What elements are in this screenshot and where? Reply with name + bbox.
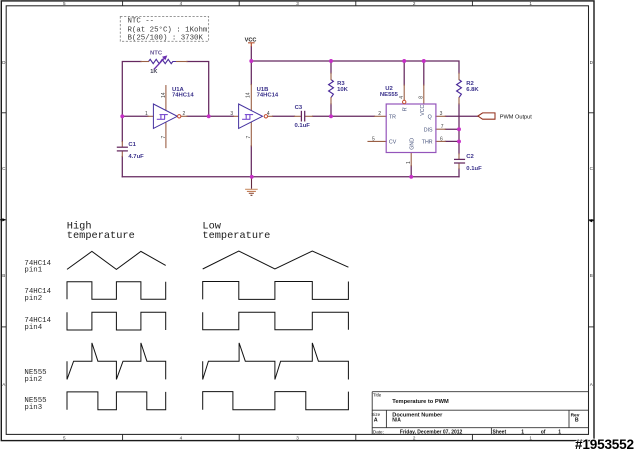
svg-text:N/A: N/A bbox=[392, 417, 401, 423]
svg-text:2: 2 bbox=[378, 111, 381, 117]
svg-text:1K: 1K bbox=[150, 69, 157, 75]
svg-text:4: 4 bbox=[399, 96, 405, 99]
svg-text:Sheet: Sheet bbox=[493, 429, 507, 435]
svg-text:3: 3 bbox=[296, 436, 299, 441]
svg-text:B(25/100) : 3730K: B(25/100) : 3730K bbox=[128, 34, 204, 42]
svg-text:PWM Output: PWM Output bbox=[500, 115, 532, 121]
svg-text:4: 4 bbox=[180, 436, 183, 441]
svg-text:C: C bbox=[590, 166, 594, 171]
svg-text:D: D bbox=[590, 60, 594, 65]
svg-text:temperature: temperature bbox=[67, 230, 135, 242]
svg-text:5: 5 bbox=[63, 436, 66, 441]
svg-text:NTC --: NTC -- bbox=[128, 18, 155, 26]
svg-text:C: C bbox=[2, 166, 6, 171]
svg-text:#1953552: #1953552 bbox=[575, 437, 635, 452]
svg-text:A: A bbox=[590, 382, 594, 387]
svg-text:C3: C3 bbox=[295, 105, 303, 111]
svg-text:1: 1 bbox=[529, 436, 532, 441]
svg-text:D: D bbox=[2, 60, 6, 65]
svg-text:3: 3 bbox=[296, 1, 299, 6]
svg-text:C1: C1 bbox=[128, 142, 136, 148]
svg-text:CV: CV bbox=[389, 139, 397, 145]
svg-text:temperature: temperature bbox=[202, 230, 270, 242]
svg-text:1: 1 bbox=[145, 111, 148, 117]
svg-text:14: 14 bbox=[246, 92, 252, 98]
svg-text:DIS: DIS bbox=[424, 127, 433, 133]
svg-text:4: 4 bbox=[267, 111, 270, 117]
svg-text:Size: Size bbox=[371, 412, 380, 417]
svg-text:Date:: Date: bbox=[373, 429, 384, 434]
svg-text:5: 5 bbox=[63, 1, 66, 6]
svg-text:pin3: pin3 bbox=[24, 404, 42, 412]
svg-text:pin2: pin2 bbox=[24, 295, 42, 303]
svg-text:2: 2 bbox=[183, 111, 186, 117]
svg-text:0.1uF: 0.1uF bbox=[466, 166, 482, 172]
svg-text:4.7uF: 4.7uF bbox=[128, 154, 144, 160]
svg-text:7: 7 bbox=[441, 124, 444, 130]
svg-text:Temperature to PWM: Temperature to PWM bbox=[392, 399, 449, 405]
svg-text:1: 1 bbox=[521, 429, 524, 435]
svg-text:14: 14 bbox=[161, 92, 167, 98]
svg-text:Friday, December 07, 2012: Friday, December 07, 2012 bbox=[400, 429, 463, 435]
svg-text:of: of bbox=[541, 429, 546, 435]
svg-text:VCC: VCC bbox=[420, 104, 426, 115]
svg-text:VCC: VCC bbox=[245, 38, 257, 44]
svg-text:3: 3 bbox=[230, 111, 233, 117]
svg-text:C2: C2 bbox=[466, 154, 474, 160]
svg-text:R: R bbox=[403, 107, 409, 111]
svg-text:5: 5 bbox=[372, 136, 375, 142]
svg-text:8: 8 bbox=[418, 96, 424, 99]
svg-text:2: 2 bbox=[413, 436, 416, 441]
svg-text:B: B bbox=[2, 273, 5, 278]
svg-text:Title: Title bbox=[373, 393, 382, 398]
svg-text:R(at 25°C) : 1Kohm: R(at 25°C) : 1Kohm bbox=[128, 25, 208, 34]
svg-text:pin4: pin4 bbox=[24, 324, 42, 332]
svg-text:1: 1 bbox=[406, 161, 412, 164]
svg-text:0.1uF: 0.1uF bbox=[295, 123, 311, 129]
svg-text:1: 1 bbox=[529, 1, 532, 6]
svg-text:pin2: pin2 bbox=[24, 376, 42, 384]
svg-text:6: 6 bbox=[440, 136, 443, 142]
svg-text:74HC14: 74HC14 bbox=[257, 93, 279, 99]
svg-text:2: 2 bbox=[413, 1, 416, 6]
svg-text:GND: GND bbox=[409, 138, 415, 150]
svg-text:7: 7 bbox=[161, 136, 167, 139]
svg-text:6.8K: 6.8K bbox=[466, 87, 479, 93]
svg-text:4: 4 bbox=[180, 1, 183, 6]
svg-text:B: B bbox=[575, 417, 579, 423]
svg-text:B: B bbox=[590, 273, 593, 278]
svg-text:7: 7 bbox=[246, 136, 252, 139]
svg-text:NE555: NE555 bbox=[380, 92, 399, 98]
svg-text:74HC14: 74HC14 bbox=[172, 93, 194, 99]
svg-text:3: 3 bbox=[440, 111, 443, 117]
svg-text:A: A bbox=[2, 382, 6, 387]
svg-text:10K: 10K bbox=[337, 87, 349, 93]
svg-text:pin1: pin1 bbox=[24, 267, 42, 275]
svg-text:A: A bbox=[374, 417, 378, 423]
svg-text:Q: Q bbox=[428, 115, 432, 121]
svg-text:TR: TR bbox=[389, 115, 396, 121]
svg-text:1: 1 bbox=[558, 429, 561, 435]
svg-text:NTC: NTC bbox=[150, 51, 163, 57]
svg-text:THR: THR bbox=[422, 139, 433, 145]
